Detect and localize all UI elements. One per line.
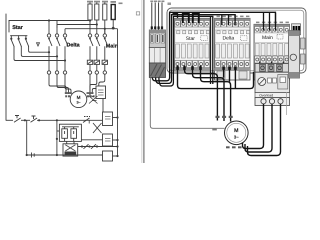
svg-text:Star: Star — [12, 25, 24, 31]
motor terminal labels right — [87, 92, 95, 97]
contact stop button — [31, 116, 38, 122]
contactor Main block — [254, 24, 290, 80]
star jumper loop 1 — [183, 14, 189, 23]
supply wire L1 riser and top bus 1 — [152, 12, 275, 81]
motor terminal labels left — [65, 92, 73, 97]
overload block edge shadow — [286, 92, 288, 115]
wire line B y=146.5 — [78, 146, 118, 148]
node A5 tick — [88, 120, 90, 123]
wire ladder left column — [56, 120, 58, 155]
wire: left rail x=6 — [5, 14, 7, 120]
terminal number smudges Delta — [217, 16, 250, 18]
contact aux 2 — [91, 144, 96, 149]
contact K3 blade 2 — [19, 40, 22, 47]
contact aux 1 — [84, 144, 89, 149]
supply cable gland dark — [149, 63, 165, 78]
supply labels L1 L2 L3 N — [150, 1, 164, 3]
wire star to delta column 1 — [29, 46, 49, 52]
earth marker triangle — [37, 43, 40, 46]
main branch column 1 — [87, 34, 92, 96]
node star contact 2 — [18, 38, 20, 40]
relay coil K1 box — [103, 112, 113, 126]
main branch column 3 — [99, 29, 108, 86]
main to overload stubs — [260, 62, 284, 66]
svg-text:Overload: Overload — [259, 94, 273, 98]
svg-text:M: M — [234, 128, 238, 134]
aux contact block top right — [292, 24, 301, 35]
supply fuse holder block — [149, 30, 165, 48]
delta branch column 3 — [63, 29, 66, 88]
node crossover 1 — [48, 51, 50, 53]
node star contact 3 — [25, 38, 27, 40]
svg-text:Main: Main — [262, 35, 273, 41]
node tap L1 fuse — [89, 19, 91, 21]
node tap L3 fuse — [104, 28, 106, 30]
fuse F3 — [103, 2, 107, 34]
crossing wires X — [93, 123, 102, 133]
wire stubs star bridge — [11, 36, 26, 38]
terminal number smudges Main — [256, 22, 289, 24]
supply terminal block — [149, 48, 165, 64]
contact K3 blade 1 — [11, 40, 14, 47]
wire motor right leads — [90, 89, 97, 97]
overload bottom wire 2 — [245, 104, 272, 152]
node control fuse blob — [112, 27, 115, 30]
relay coil K3 box — [103, 151, 118, 161]
star bottom cable lugs — [176, 66, 202, 70]
node A2 — [38, 119, 40, 121]
node crossover 3 — [64, 59, 66, 61]
wire drop to bottom bus — [26, 120, 28, 155]
contact delta blades K2 — [49, 39, 68, 46]
star enclosure box — [9, 21, 57, 33]
wire tap L3 y=28.7 — [65, 28, 118, 30]
battery ticks on bottom bus — [32, 153, 35, 158]
panel inner border — [169, 10, 304, 71]
svg-text:Delta: Delta — [223, 36, 235, 42]
small clamp mark left of supply — [136, 12, 139, 15]
stray label above panel — [168, 3, 172, 6]
motor M1 — [70, 91, 87, 108]
svg-text:3~: 3~ — [234, 135, 239, 140]
pushbutton box — [57, 124, 82, 141]
node delta blade pivots — [48, 38, 66, 40]
wire drops into Main top — [264, 13, 276, 31]
svg-text:Delta: Delta — [67, 43, 81, 49]
contactor Star block — [174, 18, 210, 71]
wire star to delta column 3 — [14, 46, 65, 60]
node star contact 1 — [10, 38, 12, 40]
overload bottom wire 3 — [248, 104, 281, 156]
motor bottom labels — [226, 146, 242, 148]
delta branch column 2 — [55, 25, 58, 87]
node A3 — [56, 119, 58, 121]
crossing wires near motor — [89, 96, 98, 104]
node crossover 2 — [56, 55, 58, 57]
node tap L2 fuse — [96, 23, 98, 25]
contact aux K1 on line A — [83, 117, 90, 123]
panel outer border — [167, 8, 306, 73]
wire: top control tap y=22 — [9, 20, 90, 22]
wire star V to motor lead 2 — [193, 66, 225, 122]
supply wires — [152, 3, 162, 31]
motor M right panel — [225, 121, 249, 145]
supply wire L2 riser and top bus 2 — [156, 15, 236, 84]
wire PE earth — [150, 78, 224, 129]
node A1 — [24, 119, 26, 121]
contact overload NC — [14, 116, 21, 123]
star bridge bar — [11, 35, 28, 37]
relay coil K2 box — [81, 134, 117, 146]
wire star W to motor lead 3 — [201, 66, 231, 122]
wire star U to motor lead 1 — [185, 66, 218, 121]
label PE — [212, 129, 217, 131]
star jumper loop 2 — [193, 14, 199, 23]
delta bottom stubs — [224, 67, 236, 89]
fuse F4 control — [111, 5, 115, 29]
wire control line A y=120.3 — [6, 118, 118, 121]
fuse F1 — [88, 2, 92, 34]
supply lugs — [151, 26, 163, 29]
contactor Delta block — [215, 18, 251, 80]
wire motor left leads — [49, 85, 71, 95]
svg-text:Star: Star — [186, 36, 196, 42]
node A4 — [116, 116, 118, 118]
wire tap L2 y=24.5 — [57, 24, 97, 26]
relay coil KT timer box — [96, 86, 106, 112]
wire star t1 to overload — [178, 66, 254, 89]
motor top lead labels — [216, 116, 233, 118]
wire star t1 feed — [173, 14, 178, 23]
delta bottom cable lugs — [222, 66, 237, 70]
coil contactor box — [63, 141, 78, 156]
delta branch column 1 — [47, 21, 50, 85]
main branch column 2 — [90, 34, 100, 96]
fuse F2 — [95, 2, 99, 34]
overload relay block — [255, 64, 290, 106]
wire bottom bus y=155 — [27, 154, 103, 156]
contact K3 blade 3 — [26, 40, 29, 47]
supply wire L3 riser and top bus 3 — [159, 16, 213, 86]
wire drops into Delta top — [222, 15, 235, 25]
label fuse tops — [87, 1, 123, 4]
svg-text:M: M — [77, 95, 81, 100]
wire between star and delta — [210, 16, 212, 84]
svg-text:3~: 3~ — [76, 101, 80, 105]
wire star to delta column 2 — [21, 46, 57, 56]
clip rail right — [301, 38, 306, 64]
wire motor aux taps — [92, 97, 97, 101]
node tap L1 — [48, 19, 50, 21]
control rail x=118.3 — [117, 29, 119, 156]
node main blade pivots — [89, 38, 106, 40]
side block right — [289, 31, 300, 79]
overload bottom wire 1 — [243, 104, 264, 149]
divider bar — [140, 0, 143, 163]
contact main blades K1 — [90, 39, 108, 46]
